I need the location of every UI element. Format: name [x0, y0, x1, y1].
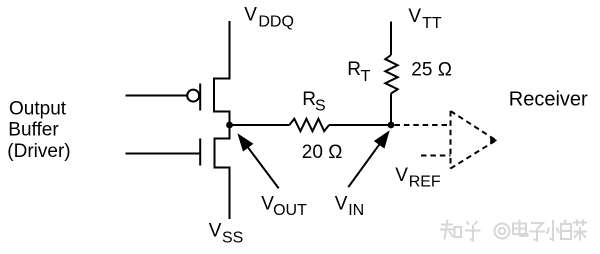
- svg-text:Receiver: Receiver: [509, 88, 588, 110]
- svg-text:RT: RT: [347, 59, 370, 85]
- svg-text:Output: Output: [9, 99, 67, 120]
- svg-text:Buffer: Buffer: [8, 120, 59, 141]
- svg-text:VSS: VSS: [209, 221, 244, 247]
- svg-text:VOUT: VOUT: [261, 193, 307, 219]
- svg-text:25 Ω: 25 Ω: [411, 59, 452, 80]
- svg-text:VDDQ: VDDQ: [244, 5, 294, 31]
- svg-text:RS: RS: [302, 89, 325, 115]
- svg-text:(Driver): (Driver): [7, 141, 70, 162]
- svg-text:VTT: VTT: [408, 6, 441, 32]
- svg-text:VIN: VIN: [335, 193, 364, 219]
- svg-text:20 Ω: 20 Ω: [302, 142, 343, 163]
- svg-text:VREF: VREF: [395, 165, 441, 191]
